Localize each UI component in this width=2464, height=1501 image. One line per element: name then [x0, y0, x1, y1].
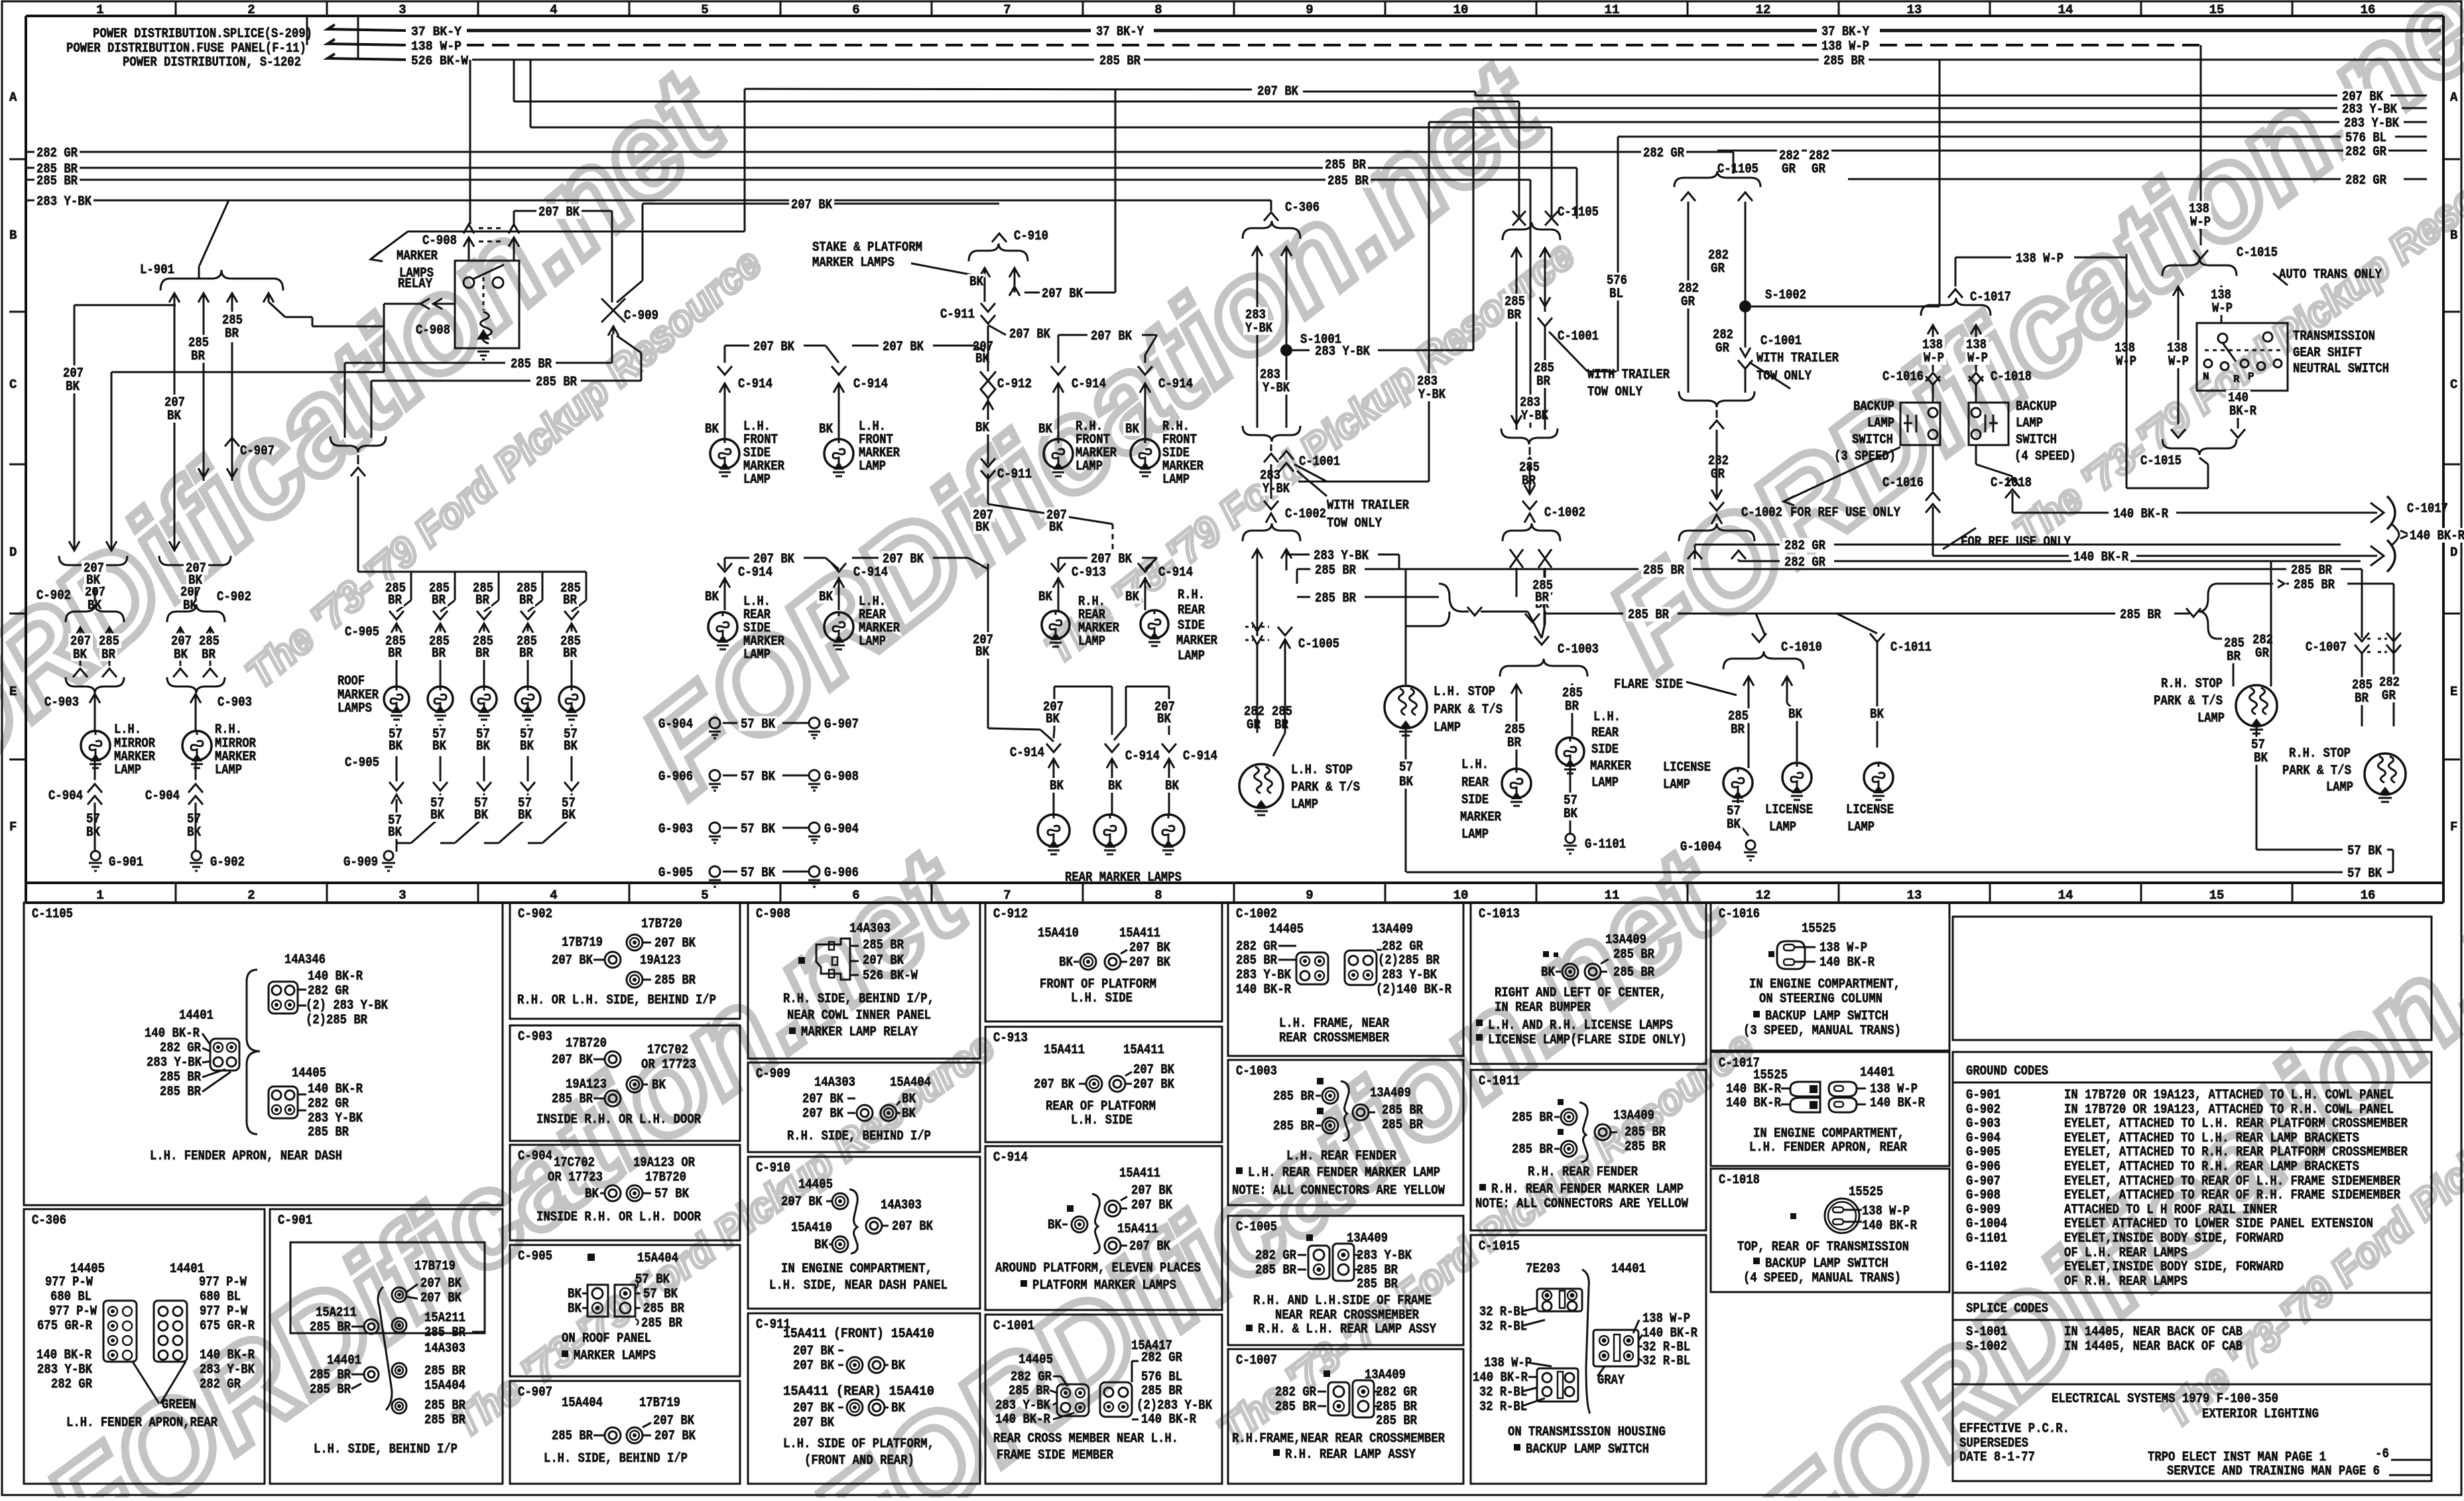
- svg-text:282 GR: 282 GR: [2345, 173, 2386, 188]
- R.H. STOP lamp (inner): [2233, 663, 2235, 686]
- svg-text:285 BR: 285 BR: [1382, 1118, 1423, 1133]
- svg-text:IN ENGINE COMPARTMENT,: IN ENGINE COMPARTMENT,: [1749, 977, 1900, 992]
- svg-text:NEUTRAL SWITCH: NEUTRAL SWITCH: [2293, 361, 2389, 377]
- svg-text:E: E: [9, 685, 17, 699]
- brace C-306 bottom: [1243, 426, 1300, 442]
- svg-text:BK: BK: [1788, 707, 1802, 722]
- svg-text:C-910: C-910: [1014, 229, 1048, 244]
- svg-text:ON TRANSMISSION HOUSING: ON TRANSMISSION HOUSING: [1508, 1425, 1666, 1440]
- svg-text:14401: 14401: [327, 1353, 361, 1368]
- svg-text:282 GR: 282 GR: [1784, 539, 1825, 554]
- brace merge into 285 BR trunk: [1439, 584, 1462, 612]
- svg-text:207 BK: 207 BK: [892, 1219, 933, 1234]
- svg-text:LAMP: LAMP: [1291, 797, 1318, 813]
- svg-text:IN 14405, NEAR BACK OF CAB: IN 14405, NEAR BACK OF CAB: [2064, 1325, 2243, 1340]
- svg-text:LAMP: LAMP: [215, 763, 242, 778]
- svg-text:285 BR: 285 BR: [1376, 1413, 1417, 1429]
- svg-text:C-914: C-914: [853, 565, 888, 580]
- svg-text:LAMP: LAMP: [1434, 720, 1461, 736]
- svg-text:BR: BR: [1507, 736, 1521, 751]
- box C-911: [748, 1313, 980, 1484]
- wire 140 BK-R below transmission: [2237, 391, 2239, 424]
- svg-text:(2)283 Y-BK: (2)283 Y-BK: [1137, 1398, 1212, 1413]
- connector C-306: [1270, 200, 1272, 211]
- svg-text:4: 4: [550, 888, 557, 903]
- svg-text:BK: BK: [476, 739, 490, 754]
- svg-text:19A123 OR: 19A123 OR: [633, 1155, 695, 1171]
- svg-text:C-1105: C-1105: [32, 907, 73, 922]
- svg-text:285 BR: 285 BR: [1628, 608, 1669, 623]
- svg-text:S-1002: S-1002: [1765, 288, 1806, 303]
- svg-text:BR: BR: [475, 646, 489, 661]
- svg-text:EXTERIOR LIGHTING: EXTERIOR LIGHTING: [2202, 1407, 2319, 1422]
- svg-text:285 BR: 285 BR: [552, 1092, 593, 1107]
- svg-text:C-1017: C-1017: [2407, 501, 2448, 517]
- lamp L.H. rear side marker: [708, 612, 737, 641]
- svg-text:G-905: G-905: [1966, 1145, 2001, 1160]
- brace gather pair x520/x560: [330, 436, 386, 452]
- svg-text:SPLICE CODES: SPLICE CODES: [1966, 1301, 2048, 1317]
- svg-text:C-902: C-902: [217, 590, 251, 605]
- svg-text:BK: BK: [1125, 422, 1139, 437]
- svg-text:C-1018: C-1018: [1991, 476, 2032, 491]
- bus 57 BK lower: [1406, 872, 2343, 874]
- svg-text:MARKER LAMPS: MARKER LAMPS: [574, 1348, 656, 1364]
- svg-text:C-912: C-912: [997, 377, 1032, 392]
- connector C-908 (coil side): [433, 298, 455, 309]
- svg-text:EYELET, ATTACHED TO REAR OF R.: EYELET, ATTACHED TO REAR OF R.H. FRAME S…: [2064, 1188, 2400, 1203]
- svg-text:57 BK: 57 BK: [741, 769, 775, 785]
- wire 283 Y-BK (row A upper): [1473, 107, 2337, 109]
- svg-text:C-1005: C-1005: [1236, 1220, 1277, 1235]
- svg-text:ON STEERING COLUMN: ON STEERING COLUMN: [1759, 992, 1882, 1007]
- svg-text:R: R: [2233, 373, 2240, 385]
- wire 285 BR mid bus y153: [514, 101, 1519, 103]
- svg-text:13A409: 13A409: [1613, 1108, 1654, 1124]
- svg-text:G-1004: G-1004: [1680, 840, 1721, 855]
- svg-text:C-1013: C-1013: [1479, 907, 1520, 922]
- wire 207 BK drop x1123: [744, 89, 746, 231]
- svg-text:L.H. SIDE, BEHIND I/P: L.H. SIDE, BEHIND I/P: [544, 1451, 688, 1467]
- svg-text:17B719: 17B719: [639, 1396, 680, 1411]
- svg-text:140 BK-R: 140 BK-R: [1870, 1096, 1925, 1111]
- svg-text:L.H. AND R.H. LICENSE LAMPS: L.H. AND R.H. LICENSE LAMPS: [1488, 1018, 1673, 1033]
- svg-text:REAR: REAR: [1178, 603, 1205, 618]
- svg-text:WITH TRAILER: WITH TRAILER: [1327, 498, 1409, 513]
- svg-text:G-906: G-906: [824, 866, 859, 881]
- svg-text:B: B: [2450, 228, 2457, 243]
- svg-text:G-907: G-907: [1966, 1174, 2001, 1189]
- svg-text:MARKER: MARKER: [1176, 633, 1217, 649]
- svg-text:5: 5: [701, 3, 708, 17]
- svg-text:17B720: 17B720: [566, 1036, 607, 1051]
- C-1010 right side (col13): [1790, 596, 2286, 598]
- svg-text:576 BL: 576 BL: [1141, 1370, 1182, 1385]
- box C-1017: [1711, 1052, 1949, 1166]
- connector C-1005: [1257, 623, 1258, 636]
- box C-1016: [1711, 903, 1949, 1051]
- svg-text:6: 6: [852, 888, 859, 903]
- svg-text:BR: BR: [101, 647, 115, 663]
- svg-text:C-907: C-907: [240, 444, 275, 459]
- svg-text:285 BR: 285 BR: [1357, 1277, 1398, 1292]
- wire C-1105 right arm: [1544, 248, 1546, 312]
- svg-text:BACKUP LAMP SWITCH: BACKUP LAMP SWITCH: [1765, 1009, 1888, 1024]
- svg-text:C-902: C-902: [36, 588, 71, 604]
- wire 282 GR row B right: [1848, 178, 2341, 180]
- svg-text:LICENSE: LICENSE: [1765, 803, 1813, 818]
- svg-text:15A411: 15A411: [1123, 1043, 1164, 1058]
- connector C-1001 (right): [1740, 348, 1751, 357]
- svg-text:207 BK: 207 BK: [1129, 1239, 1170, 1254]
- wire 576 BL drop: [1617, 137, 1619, 371]
- wire 207 BK (row A): [745, 89, 1252, 90]
- lamp L.H. stop park & T/S: [1239, 764, 1283, 808]
- svg-text:BR: BR: [225, 326, 239, 342]
- wire loop2: [1126, 686, 1169, 688]
- svg-text:BK: BK: [902, 1106, 916, 1122]
- svg-text:57 BK: 57 BK: [741, 717, 775, 732]
- svg-text:1: 1: [96, 888, 103, 903]
- svg-text:TOW ONLY: TOW ONLY: [1756, 369, 1812, 384]
- bus 285 BR lower (y925): [1297, 596, 1310, 598]
- svg-text:FRAME SIDE MEMBER: FRAME SIDE MEMBER: [997, 1448, 1113, 1463]
- svg-text:C-914: C-914: [1125, 749, 1160, 764]
- svg-text:IN REAR BUMPER: IN REAR BUMPER: [1495, 1000, 1591, 1015]
- wire 138 W-P return: [2126, 254, 2128, 488]
- svg-text:C-1015: C-1015: [2237, 245, 2278, 261]
- wire 207 BK long drop: [1115, 90, 1117, 293]
- brace C-901: [378, 1287, 392, 1410]
- svg-text:283 Y-BK: 283 Y-BK: [995, 1398, 1050, 1413]
- svg-text:140 BK-R: 140 BK-R: [1819, 955, 1875, 970]
- svg-text:BR: BR: [1731, 722, 1745, 738]
- splice S-1001: [1280, 344, 1292, 356]
- svg-text:15A404: 15A404: [424, 1378, 465, 1394]
- bus 283 Y-BK: [26, 200, 1271, 202]
- box C-908: [748, 903, 980, 1059]
- lamp L.H. front marker: [824, 439, 853, 468]
- bus 282 GR: [26, 151, 1733, 153]
- roof marker lamp column 4: [542, 572, 544, 600]
- svg-text:10: 10: [1453, 3, 1469, 17]
- svg-text:C-911: C-911: [997, 467, 1032, 482]
- svg-text:2: 2: [247, 3, 255, 17]
- wire 282 GR arm: [1688, 202, 1690, 393]
- svg-text:LAMP: LAMP: [1078, 634, 1105, 649]
- svg-text:14405: 14405: [292, 1066, 326, 1081]
- svg-text:SIDE: SIDE: [1178, 618, 1205, 633]
- svg-text:285 BR: 285 BR: [424, 1325, 465, 1340]
- svg-text:207 BK: 207 BK: [883, 552, 924, 567]
- svg-text:285 BR: 285 BR: [1273, 1119, 1314, 1134]
- svg-text:GR: GR: [1681, 294, 1695, 310]
- svg-text:C-905: C-905: [345, 755, 379, 771]
- svg-text:285 BR: 285 BR: [863, 938, 904, 953]
- svg-text:207 BK: 207 BK: [802, 1092, 843, 1107]
- svg-text:G-904: G-904: [1966, 1131, 2001, 1146]
- svg-text:C-1002: C-1002: [1741, 505, 1782, 521]
- svg-text:BK: BK: [1038, 590, 1052, 605]
- roof marker lamp column 1: [410, 572, 412, 600]
- splice S-1002: [1739, 300, 1751, 312]
- svg-text:C-1011: C-1011: [1890, 640, 1932, 655]
- svg-text:207 BK: 207 BK: [793, 1344, 834, 1359]
- svg-text:NOTE: ALL CONNECTORS ARE YELLO: NOTE: ALL CONNECTORS ARE YELLOW: [1475, 1197, 1688, 1212]
- box C-1018: [1711, 1169, 1949, 1292]
- box C-907: [510, 1381, 740, 1484]
- svg-text:282 GR: 282 GR: [308, 1096, 349, 1112]
- svg-text:(4 SPEED): (4 SPEED): [2014, 449, 2076, 464]
- svg-text:285 BR: 285 BR: [308, 1125, 349, 1140]
- svg-text:2: 2: [247, 888, 255, 903]
- svg-text:207 BK: 207 BK: [654, 1429, 696, 1444]
- svg-text:285 BR: 285 BR: [1273, 1089, 1314, 1104]
- lamp R.H. front side marker: [1131, 439, 1160, 468]
- svg-text:BR: BR: [563, 593, 577, 608]
- svg-text:(2) 283 Y-BK: (2) 283 Y-BK: [306, 998, 388, 1013]
- bus 57 BK upper: [2256, 849, 2343, 851]
- svg-text:57 BK: 57 BK: [2347, 866, 2382, 881]
- box C-902: [510, 903, 740, 1019]
- svg-text:140 BK-R: 140 BK-R: [1236, 982, 1291, 998]
- svg-text:282 GR: 282 GR: [36, 146, 78, 161]
- box C-1011: [1471, 1070, 1706, 1230]
- feeds above C-902 braces: [94, 564, 96, 601]
- svg-text:283 Y-BK: 283 Y-BK: [1357, 1248, 1412, 1264]
- svg-text:C-914: C-914: [738, 377, 772, 392]
- ground G-901: [91, 851, 100, 860]
- box C-1005: [1228, 1216, 1463, 1345]
- svg-text:OF L.H. REAR LAMPS: OF L.H. REAR LAMPS: [2064, 1246, 2187, 1261]
- svg-text:285 BR: 285 BR: [654, 973, 696, 988]
- svg-text:BK: BK: [187, 825, 201, 840]
- svg-text:GR: GR: [1711, 261, 1725, 277]
- svg-text:LAMP: LAMP: [114, 763, 141, 778]
- wire 207 BK from relay: [513, 211, 515, 227]
- svg-text:576 BL: 576 BL: [2345, 131, 2386, 146]
- connector C-1001 (center): [1538, 318, 1552, 326]
- vertical drop x263 to C-902 rows: [174, 305, 176, 551]
- svg-text:WITH TRAILER: WITH TRAILER: [1587, 367, 1670, 383]
- lamp L.H. front side marker: [710, 439, 739, 468]
- box C-901: [270, 1209, 503, 1484]
- svg-text:285 BR: 285 BR: [1315, 563, 1356, 578]
- svg-text:GREEN: GREEN: [162, 1398, 196, 1413]
- connector C-904 left: [94, 760, 96, 780]
- svg-text:DATE 8-1-77: DATE 8-1-77: [1959, 1450, 2035, 1465]
- connectors C-914 rear marker: [1046, 744, 1061, 752]
- svg-text:207 BK: 207 BK: [1034, 1077, 1075, 1092]
- wire 207 BK right segment: [643, 203, 999, 205]
- svg-text:L.H.: L.H.: [1461, 757, 1489, 773]
- svg-text:57 BK: 57 BK: [635, 1272, 670, 1287]
- svg-text:285 BR: 285 BR: [310, 1320, 351, 1335]
- svg-text:S-1001: S-1001: [1966, 1325, 2007, 1340]
- svg-text:SUPERSEDES: SUPERSEDES: [1959, 1436, 2028, 1451]
- svg-text:BL: BL: [1609, 287, 1623, 302]
- svg-text:BK: BK: [705, 422, 719, 437]
- svg-text:285 BR: 285 BR: [1275, 1400, 1316, 1415]
- svg-text:FLARE SIDE: FLARE SIDE: [1614, 677, 1683, 692]
- svg-text:TRANSMISSION: TRANSMISSION: [2293, 329, 2375, 344]
- wire riser x775: [513, 60, 515, 101]
- svg-text:14401: 14401: [179, 1008, 214, 1023]
- wire roof lamp feed bus: [358, 571, 586, 573]
- svg-text:207 BK: 207 BK: [653, 1413, 694, 1429]
- svg-text:F: F: [9, 820, 17, 834]
- svg-text:BK: BK: [389, 739, 402, 754]
- svg-text:D: D: [9, 545, 17, 560]
- svg-text:283 Y-BK: 283 Y-BK: [2344, 116, 2399, 131]
- svg-text:13: 13: [1907, 888, 1922, 903]
- svg-text:BR: BR: [1565, 699, 1579, 714]
- svg-text:37 BK-Y: 37 BK-Y: [411, 25, 462, 39]
- svg-text:207 BK: 207 BK: [863, 953, 904, 968]
- svg-text:TOP, REAR OF TRANSMISSION: TOP, REAR OF TRANSMISSION: [1737, 1240, 1909, 1255]
- svg-text:BK: BK: [518, 808, 532, 823]
- svg-text:207 BK: 207 BK: [802, 1106, 843, 1122]
- C-914 rear row: [724, 558, 726, 569]
- svg-text:C-1001: C-1001: [1558, 329, 1599, 344]
- leader: [1549, 332, 1587, 371]
- svg-text:G-903: G-903: [1966, 1116, 2001, 1132]
- svg-text:TOW ONLY: TOW ONLY: [1327, 516, 1382, 531]
- svg-text:9: 9: [1306, 888, 1313, 903]
- svg-text:C-1105: C-1105: [1717, 162, 1758, 177]
- svg-text:977 P-W: 977 P-W: [199, 1275, 247, 1290]
- svg-text:C-910: C-910: [756, 1161, 790, 1176]
- svg-text:16: 16: [2361, 3, 2376, 17]
- svg-text:G-902: G-902: [210, 855, 245, 870]
- svg-text:BK: BK: [975, 645, 989, 660]
- svg-text:POWER DISTRIBUTION.FUSE PANEL(: POWER DISTRIBUTION.FUSE PANEL(F-11): [66, 41, 306, 56]
- svg-text:207 BK: 207 BK: [1042, 287, 1083, 302]
- svg-text:Y-BK: Y-BK: [1263, 482, 1290, 497]
- svg-text:G-904: G-904: [658, 717, 693, 732]
- brace C-1002 right: [1679, 391, 1755, 407]
- svg-text:BK: BK: [969, 275, 983, 290]
- svg-text:14405: 14405: [1018, 1352, 1053, 1368]
- leader line: [911, 263, 981, 277]
- svg-text:BK: BK: [1165, 779, 1179, 794]
- svg-text:OR 17723: OR 17723: [641, 1057, 696, 1073]
- svg-text:283 Y-BK: 283 Y-BK: [200, 1362, 255, 1378]
- wire 285 BR from relay to L-901 arm4: [312, 317, 314, 326]
- svg-text:INSIDE R.H. OR L.H. DOOR: INSIDE R.H. OR L.H. DOOR: [536, 1210, 701, 1225]
- svg-text:(2)140 BK-R: (2)140 BK-R: [1376, 982, 1451, 998]
- svg-text:LICENSE LAMP(FLARE SIDE ONLY): LICENSE LAMP(FLARE SIDE ONLY): [1488, 1033, 1687, 1048]
- feed arrow: [328, 39, 406, 45]
- svg-text:15A411: 15A411: [1117, 1222, 1158, 1237]
- svg-text:15A404: 15A404: [637, 1251, 678, 1266]
- svg-text:15A411 (REAR) 15A410: 15A411 (REAR) 15A410: [783, 1384, 934, 1400]
- svg-text:E: E: [2450, 685, 2457, 699]
- box C-903: [510, 1025, 740, 1141]
- svg-text:BR: BR: [202, 647, 216, 663]
- transmission gear shift neutral switch: [2197, 323, 2288, 391]
- svg-text:ROOF: ROOF: [338, 674, 365, 689]
- svg-text:REAR CROSSMEMBER: REAR CROSSMEMBER: [1279, 1031, 1389, 1046]
- svg-text:207 BK: 207 BK: [791, 198, 832, 213]
- svg-text:675 GR-R: 675 GR-R: [37, 1319, 92, 1334]
- svg-text:-6: -6: [2375, 1447, 2389, 1462]
- svg-text:15525: 15525: [1849, 1185, 1883, 1200]
- backup lamp switches C-1016/C-1018: [1955, 257, 2011, 259]
- lamp L.H. stop (inner): [1405, 569, 1407, 685]
- svg-text:5: 5: [701, 888, 708, 903]
- box C-910: [748, 1157, 980, 1309]
- wire C-306 right arm: [1286, 247, 1288, 428]
- svg-text:140 BK-R: 140 BK-R: [1642, 1326, 1697, 1341]
- svg-text:R.H. AND L.H.SIDE OF FRAME: R.H. AND L.H.SIDE OF FRAME: [1253, 1293, 1432, 1309]
- svg-text:1: 1: [96, 3, 103, 17]
- svg-text:GR: GR: [2382, 688, 2396, 704]
- svg-text:17B720: 17B720: [641, 917, 682, 932]
- svg-text:285 BR: 285 BR: [643, 1301, 684, 1317]
- svg-text:140 BK-R: 140 BK-R: [200, 1348, 255, 1363]
- svg-text:17C702: 17C702: [647, 1043, 688, 1058]
- svg-text:BK: BK: [705, 590, 719, 605]
- svg-text:285 BR: 285 BR: [641, 1316, 682, 1331]
- svg-text:57: 57: [1399, 760, 1413, 775]
- lamp license (flare): [1723, 768, 1753, 797]
- svg-text:MARKER LAMP RELAY: MARKER LAMP RELAY: [801, 1025, 918, 1040]
- svg-text:G-904: G-904: [824, 822, 859, 837]
- svg-text:6: 6: [852, 3, 859, 17]
- lamp R.H. mirror marker: [182, 731, 212, 760]
- wire 285 BR relay to left: [111, 371, 384, 373]
- svg-text:285 BR: 285 BR: [160, 1070, 201, 1085]
- svg-text:32 R-BL: 32 R-BL: [1479, 1319, 1527, 1335]
- svg-text:BR: BR: [1536, 374, 1550, 389]
- bus 285 BR y925 right segment: [1756, 613, 2115, 615]
- svg-text:C-1007: C-1007: [1236, 1353, 1277, 1368]
- svg-text:285 BR: 285 BR: [1613, 965, 1654, 980]
- brace gather right pair: [159, 556, 231, 572]
- svg-text:MARKER: MARKER: [1460, 810, 1501, 825]
- svg-text:REAR: REAR: [1591, 726, 1619, 741]
- wires 282 GR from C-1002 right: [1694, 545, 1696, 559]
- svg-text:285 BR: 285 BR: [2291, 563, 2332, 578]
- svg-text:BK: BK: [388, 825, 402, 840]
- svg-text:140 BK-R: 140 BK-R: [995, 1412, 1050, 1427]
- svg-text:285 BR: 285 BR: [2294, 578, 2335, 593]
- svg-text:R.H.: R.H.: [1178, 588, 1205, 603]
- svg-text:285 BR: 285 BR: [1613, 947, 1654, 962]
- svg-text:140 BK-R: 140 BK-R: [1862, 1218, 1917, 1234]
- svg-text:BK: BK: [1046, 712, 1060, 727]
- brace 14401 to 14A346/14405: [247, 970, 260, 1134]
- svg-text:BK: BK: [1727, 817, 1741, 832]
- svg-text:BK: BK: [1870, 707, 1884, 722]
- svg-text:W-P: W-P: [2190, 215, 2211, 230]
- svg-text:10: 10: [1453, 888, 1469, 903]
- svg-text:283 Y-BK: 283 Y-BK: [308, 1111, 363, 1126]
- svg-text:283 Y-BK: 283 Y-BK: [147, 1055, 202, 1071]
- svg-text:138 W-P: 138 W-P: [1862, 1204, 1910, 1219]
- svg-text:LAMP: LAMP: [743, 472, 770, 488]
- svg-text:15: 15: [2209, 888, 2225, 903]
- svg-text:L.H. SIDE: L.H. SIDE: [1071, 1113, 1133, 1128]
- svg-text:LAMP: LAMP: [1663, 777, 1690, 793]
- svg-text:AROUND PLATFORM, ELEVEN PLACES: AROUND PLATFORM, ELEVEN PLACES: [995, 1261, 1201, 1276]
- bus 285 BR lower (y858): [1297, 568, 1310, 570]
- svg-text:L.H. SIDE, BEHIND I/P: L.H. SIDE, BEHIND I/P: [314, 1442, 458, 1457]
- svg-text:C-1007: C-1007: [2306, 640, 2347, 655]
- svg-text:BK: BK: [568, 1287, 582, 1302]
- svg-text:15A411: 15A411: [1119, 1166, 1160, 1181]
